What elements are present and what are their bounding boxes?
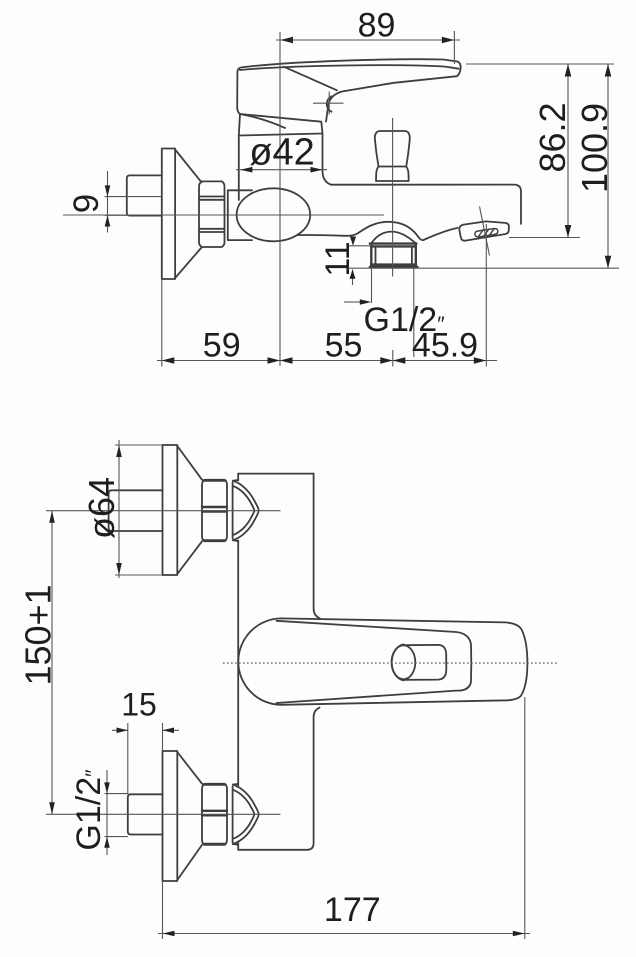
diverter knob (side view) <box>375 131 410 181</box>
dimension 177 <box>158 697 530 939</box>
dimension 15 <box>112 687 179 795</box>
dimension ø42 <box>236 132 327 174</box>
svg-text:11: 11 <box>319 241 357 276</box>
bottom connection axis <box>46 813 281 815</box>
dimension ø64 <box>81 440 162 578</box>
top inlet pipe (plan) <box>109 490 163 531</box>
spout body top <box>331 185 521 224</box>
dimension 100.9 <box>574 64 615 268</box>
cartridge housing <box>238 136 240 201</box>
spout end piece <box>459 221 509 240</box>
svg-text:55: 55 <box>325 327 363 365</box>
bottom inlet pipe (plan) <box>128 794 163 834</box>
hex nut (side view) <box>199 181 225 247</box>
G1/2 label with leader (top view) <box>344 268 445 357</box>
svg-text:150+1: 150+1 <box>18 584 59 685</box>
bottom eccentric olive <box>233 784 259 845</box>
outlet dome inner cap <box>371 232 416 244</box>
svg-text:59: 59 <box>203 327 241 365</box>
lever handle blade <box>237 59 460 121</box>
spout body underside with outlet dome <box>297 222 458 240</box>
boss crosshair <box>313 92 344 115</box>
dimension G1/2 (plan) <box>70 769 128 855</box>
diverter knob (plan) <box>392 644 447 680</box>
dimension row 59 / 55 / 45.9 <box>157 224 497 367</box>
svg-text:ø64: ø64 <box>81 477 122 539</box>
svg-text:45.9: 45.9 <box>412 327 478 365</box>
section diagonal through end piece <box>480 207 490 256</box>
lever left lower edge <box>240 114 285 128</box>
joint collar between nut and ball <box>228 190 252 240</box>
lever screw boss <box>327 96 332 111</box>
connection centerline <box>63 214 384 216</box>
faucet body inner outline (plan) <box>277 621 472 703</box>
svg-text:177: 177 <box>324 891 381 929</box>
dimension 86.2 <box>532 64 573 238</box>
svg-text:15: 15 <box>121 687 157 723</box>
bottom hex nut (plan) <box>202 784 227 845</box>
wall escutcheon (side view) <box>162 149 202 280</box>
inlet pipe G1/2 (side view) <box>127 175 162 215</box>
aerator screen hatch <box>475 229 498 237</box>
faucet body outer outline (plan) <box>238 618 527 704</box>
pipe thread line <box>105 196 162 198</box>
dimension 11 <box>319 237 371 286</box>
top eccentric olive <box>233 480 259 541</box>
extension line 86.2 bottom <box>509 237 580 239</box>
bottom wall escutcheon (plan) <box>163 751 203 881</box>
svg-text:86.2: 86.2 <box>532 102 573 172</box>
long vertical extension through handle axis <box>279 32 281 366</box>
top wall escutcheon (plan) <box>163 445 203 575</box>
extension line 100.9 / 11 bottom <box>348 267 619 269</box>
body ball (ellipse) <box>237 188 311 241</box>
dimension 150+1 <box>18 511 59 815</box>
knob / outlet centerline <box>392 118 394 277</box>
bottom washer <box>232 787 234 843</box>
mounting body <box>238 474 319 850</box>
outlet thread collar <box>370 244 418 267</box>
dotted centerline (plan) <box>223 662 558 664</box>
top washer <box>232 483 234 539</box>
svg-text:89: 89 <box>358 7 396 45</box>
svg-text:9: 9 <box>67 194 106 213</box>
dimension 9 <box>67 171 127 233</box>
svg-text:ø42: ø42 <box>249 132 314 174</box>
top connection axis <box>46 510 281 512</box>
top hex nut (plan) <box>202 480 227 541</box>
lever collar <box>239 114 323 136</box>
svg-text:G1/2″: G1/2″ <box>70 769 108 851</box>
dimension 89 <box>276 7 460 65</box>
extension line top (86.2/100.9) <box>466 63 614 65</box>
svg-text:100.9: 100.9 <box>574 103 615 193</box>
